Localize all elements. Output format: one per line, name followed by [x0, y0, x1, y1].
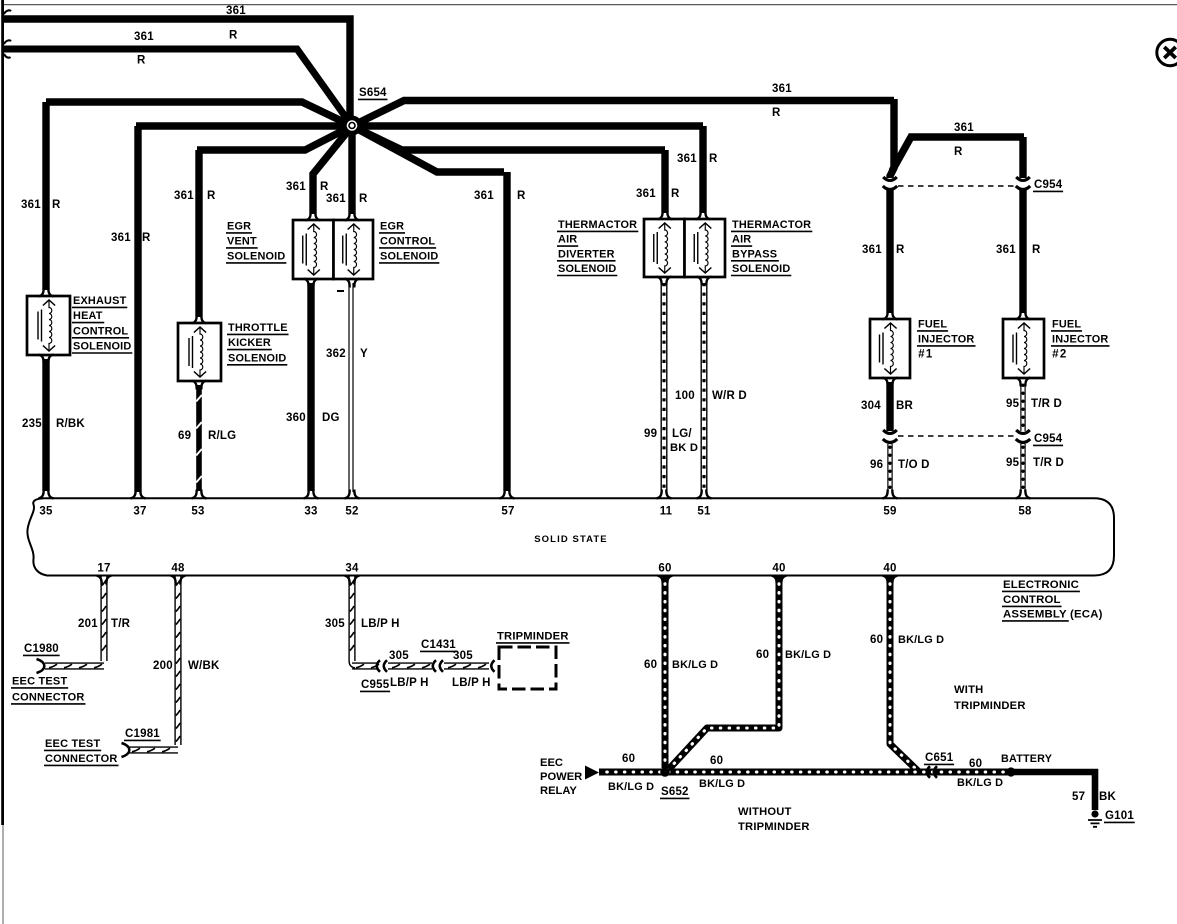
svg-text:60: 60 [658, 563, 671, 575]
svg-text:304: 304 [861, 400, 881, 412]
svg-text:95: 95 [1006, 457, 1020, 469]
svg-text:R: R [207, 190, 216, 202]
svg-text:C1980: C1980 [24, 643, 59, 655]
svg-text:T/R: T/R [111, 618, 131, 630]
svg-text:60: 60 [756, 649, 769, 661]
svg-text:INJECTOR: INJECTOR [1052, 334, 1108, 346]
svg-text:305: 305 [389, 650, 409, 662]
svg-text:G101: G101 [1105, 810, 1134, 822]
svg-text:360: 360 [286, 412, 306, 424]
svg-text:THERMACTOR: THERMACTOR [558, 219, 637, 231]
svg-text:R: R [320, 181, 329, 193]
svg-text:SOLENOID: SOLENOID [73, 341, 131, 353]
svg-text:52: 52 [345, 506, 358, 518]
svg-text:BK D: BK D [670, 442, 698, 454]
svg-text:60: 60 [644, 659, 657, 671]
svg-text:R: R [709, 153, 718, 165]
svg-text:BK/LG D: BK/LG D [898, 634, 944, 646]
svg-text:W/BK: W/BK [188, 660, 220, 672]
svg-text:S654: S654 [359, 87, 387, 99]
svg-text:33: 33 [304, 506, 317, 518]
svg-text:361: 361 [286, 181, 306, 193]
svg-text:R: R [137, 55, 146, 67]
svg-text:361: 361 [21, 199, 41, 211]
svg-text:95: 95 [1006, 398, 1020, 410]
svg-text:THERMACTOR: THERMACTOR [732, 219, 811, 231]
svg-text:R: R [896, 244, 905, 256]
svg-text:96: 96 [870, 459, 883, 471]
svg-text:361: 361 [954, 122, 974, 134]
svg-text:T/R D: T/R D [1033, 457, 1064, 469]
svg-text:TRIPMINDER: TRIPMINDER [738, 821, 810, 833]
svg-text:ASSEMBLY: ASSEMBLY [1003, 609, 1067, 621]
svg-text:EGR: EGR [380, 221, 404, 233]
svg-text:361: 361 [474, 190, 494, 202]
svg-text:SOLENOID: SOLENOID [732, 263, 790, 275]
svg-text:37: 37 [133, 506, 146, 518]
svg-text:361: 361 [174, 190, 194, 202]
svg-text:DIVERTER: DIVERTER [558, 248, 615, 260]
svg-text:R: R [1032, 244, 1041, 256]
svg-text:VENT: VENT [227, 236, 257, 248]
svg-text:W/R D: W/R D [712, 390, 747, 402]
svg-text:(ECA): (ECA) [1070, 609, 1103, 621]
svg-text:BK/LG D: BK/LG D [672, 659, 718, 671]
svg-text:WITH: WITH [954, 684, 983, 696]
svg-text:100: 100 [675, 390, 695, 402]
svg-text:THROTTLE: THROTTLE [228, 322, 288, 334]
svg-text:BK/LG D: BK/LG D [957, 777, 1003, 789]
svg-text:HEAT: HEAT [73, 310, 103, 322]
svg-text:35: 35 [39, 506, 53, 518]
svg-text:R: R [359, 193, 368, 205]
svg-text:CONTROL: CONTROL [73, 325, 128, 337]
svg-text:235: 235 [22, 418, 42, 430]
svg-text:CONTROL: CONTROL [380, 236, 435, 248]
svg-text:34: 34 [345, 563, 359, 575]
svg-text:BYPASS: BYPASS [732, 248, 777, 260]
svg-text:40: 40 [772, 563, 785, 575]
svg-text:LG/: LG/ [672, 428, 692, 440]
svg-text:R: R [229, 30, 238, 42]
svg-text:362: 362 [326, 348, 346, 360]
svg-text:11: 11 [660, 506, 673, 518]
svg-text:POWER: POWER [540, 771, 582, 783]
svg-text:C955: C955 [361, 679, 390, 691]
svg-text:361: 361 [772, 83, 792, 95]
svg-text:57: 57 [501, 506, 514, 518]
svg-text:KICKER: KICKER [228, 337, 271, 349]
svg-text:BATTERY: BATTERY [1001, 753, 1053, 765]
svg-text:CONTROL: CONTROL [1003, 594, 1061, 606]
svg-text:Y: Y [360, 348, 368, 360]
svg-text:C954: C954 [1034, 433, 1063, 445]
svg-text:201: 201 [78, 618, 98, 630]
svg-text:BK/LG D: BK/LG D [699, 778, 745, 790]
svg-text:69: 69 [178, 430, 191, 442]
svg-text:40: 40 [883, 563, 896, 575]
svg-text:R: R [517, 190, 526, 202]
svg-text:R: R [142, 232, 151, 244]
svg-text:361: 361 [862, 244, 882, 256]
svg-text:R: R [671, 188, 680, 200]
svg-text:17: 17 [97, 563, 110, 575]
svg-text:LB/P H: LB/P H [361, 618, 400, 630]
svg-text:361: 361 [636, 188, 656, 200]
svg-text:R: R [954, 146, 963, 158]
svg-text:60: 60 [969, 758, 982, 770]
svg-text:C651: C651 [925, 752, 954, 764]
svg-text:48: 48 [171, 563, 185, 575]
svg-text:#1: #1 [918, 349, 934, 361]
svg-text:361: 361 [134, 31, 154, 43]
svg-text:SOLENOID: SOLENOID [227, 251, 285, 263]
svg-text:C1981: C1981 [125, 728, 160, 740]
svg-text:C1431: C1431 [421, 639, 456, 651]
svg-text:R/BK: R/BK [56, 418, 85, 430]
svg-text:AIR: AIR [732, 234, 751, 246]
svg-text:200: 200 [153, 660, 173, 672]
svg-text:R: R [52, 199, 61, 211]
svg-text:TRIPMINDER: TRIPMINDER [497, 631, 569, 643]
svg-text:51: 51 [697, 506, 711, 518]
svg-text:361: 361 [226, 5, 246, 17]
svg-text:EEC TEST: EEC TEST [45, 738, 100, 750]
svg-text:S652: S652 [661, 786, 689, 798]
svg-text:BR: BR [896, 400, 914, 412]
svg-text:CONNECTOR: CONNECTOR [45, 753, 118, 765]
svg-text:AIR: AIR [558, 234, 577, 246]
svg-text:#2: #2 [1052, 349, 1068, 361]
svg-text:SOLENOID: SOLENOID [228, 352, 286, 364]
svg-text:60: 60 [622, 753, 635, 765]
svg-text:EXHAUST: EXHAUST [73, 295, 127, 307]
svg-text:361: 361 [326, 193, 346, 205]
svg-text:58: 58 [1018, 506, 1032, 518]
svg-text:LB/P H: LB/P H [390, 677, 429, 689]
svg-text:60: 60 [710, 755, 723, 767]
svg-text:SOLENOID: SOLENOID [558, 263, 616, 275]
svg-text:SOLID STATE: SOLID STATE [534, 534, 608, 545]
svg-text:ELECTRONIC: ELECTRONIC [1003, 579, 1079, 591]
svg-text:60: 60 [870, 634, 883, 646]
svg-text:R/LG: R/LG [208, 430, 236, 442]
svg-text:361: 361 [996, 244, 1016, 256]
svg-text:CONNECTOR: CONNECTOR [12, 692, 85, 704]
svg-text:EEC TEST: EEC TEST [12, 676, 67, 688]
svg-text:EGR: EGR [227, 221, 251, 233]
svg-text:C954: C954 [1034, 179, 1063, 191]
svg-text:EEC: EEC [540, 757, 563, 769]
svg-text:SOLENOID: SOLENOID [380, 251, 438, 263]
svg-text:RELAY: RELAY [540, 785, 577, 797]
svg-text:BK: BK [1099, 791, 1117, 803]
svg-text:BK/LG D: BK/LG D [785, 649, 831, 661]
svg-text:57: 57 [1072, 791, 1085, 803]
svg-text:59: 59 [883, 506, 896, 518]
svg-text:R: R [772, 107, 781, 119]
svg-text:LB/P H: LB/P H [452, 677, 491, 689]
svg-text:BK/LG D: BK/LG D [608, 781, 654, 793]
svg-text:INJECTOR: INJECTOR [918, 334, 974, 346]
svg-text:361: 361 [111, 232, 131, 244]
svg-text:WITHOUT: WITHOUT [738, 806, 792, 818]
svg-text:305: 305 [325, 618, 345, 630]
svg-text:T/O D: T/O D [898, 459, 930, 471]
svg-text:53: 53 [191, 506, 204, 518]
svg-text:TRIPMINDER: TRIPMINDER [954, 700, 1026, 712]
svg-text:FUEL: FUEL [918, 319, 947, 331]
svg-text:DG: DG [322, 412, 340, 424]
svg-text:99: 99 [644, 428, 657, 440]
svg-text:T/R D: T/R D [1031, 398, 1062, 410]
svg-text:FUEL: FUEL [1052, 319, 1081, 331]
svg-text:361: 361 [677, 153, 697, 165]
